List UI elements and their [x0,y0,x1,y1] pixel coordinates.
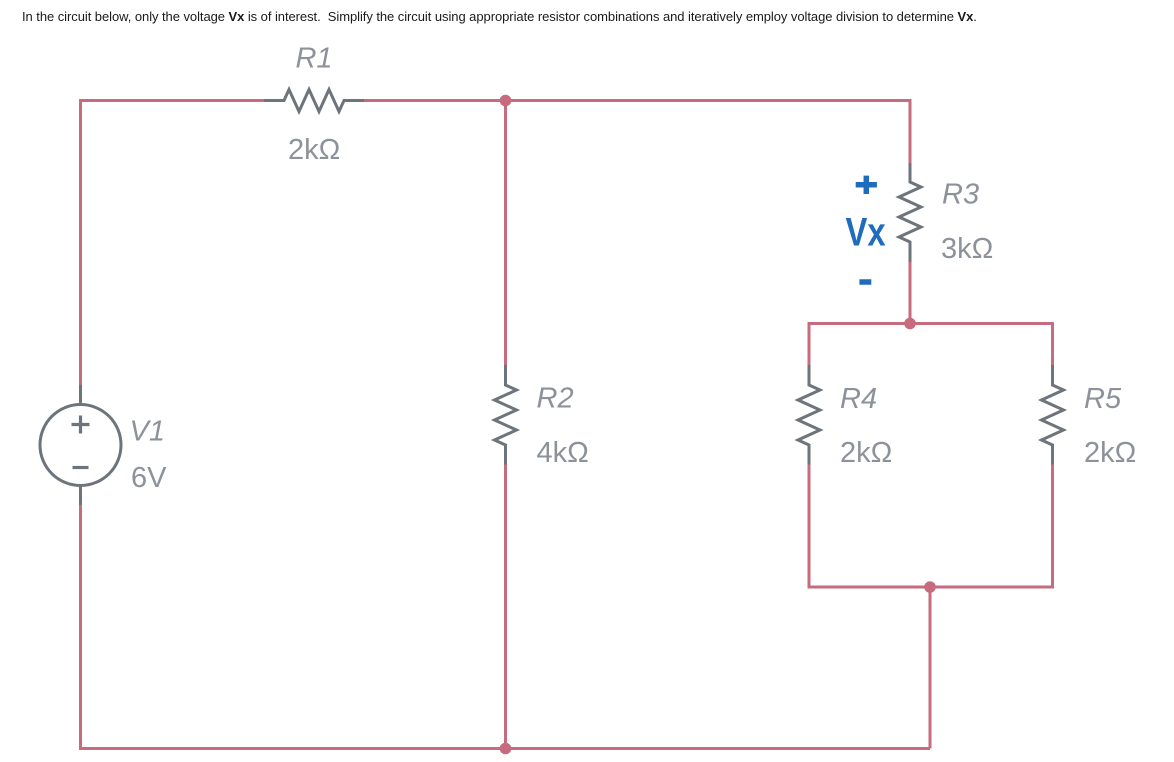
resistor R4 [798,365,820,465]
resistor R3 [899,163,921,262]
svg-text:6V: 6V [131,462,167,494]
svg-text:R5: R5 [1084,383,1122,415]
svg-text:4kΩ: 4kΩ [537,437,589,469]
node A junction dot top wire [500,95,512,107]
svg-text:3kΩ: 3kΩ [941,233,993,265]
voltage source V1 [40,385,121,505]
svg-text:R2: R2 [537,383,574,415]
Vx minus sign [859,279,871,285]
svg-text:R4: R4 [840,383,877,415]
svg-text:R1: R1 [295,43,332,75]
svg-text:2kΩ: 2kΩ [840,437,892,469]
wire: R3 bottom stub to loop [909,262,912,324]
resistor R1 [264,90,364,112]
node D junction dot bottom wire [500,743,512,755]
svg-text:V1: V1 [130,416,165,448]
wire: loop top rail [809,324,1053,366]
Vx plus sign [856,176,877,194]
resistor R2 [495,365,517,465]
wire: top wire right segment + right rail down to R3 [362,101,910,164]
wire: R2 branch upper stub [504,101,507,366]
wire: drop from loop bottom to bottom wire [929,587,932,749]
svg-text:Vx: Vx [846,209,887,254]
wire: left rail upper + top wire left segment [81,101,267,386]
svg-text:2kΩ: 2kΩ [288,134,340,166]
resistor R5 [1042,365,1064,465]
wire: left rail lower + bottom wire [81,505,931,749]
problem statement text [22,10,977,23]
wire: R2 branch lower stub [504,465,507,749]
svg-text:2kΩ: 2kΩ [1084,437,1136,469]
node C junction dot loop bottom [924,581,936,593]
svg-text:R3: R3 [942,179,979,211]
wire: loop bottom rail [809,465,1053,588]
node B junction dot loop top [904,318,916,330]
